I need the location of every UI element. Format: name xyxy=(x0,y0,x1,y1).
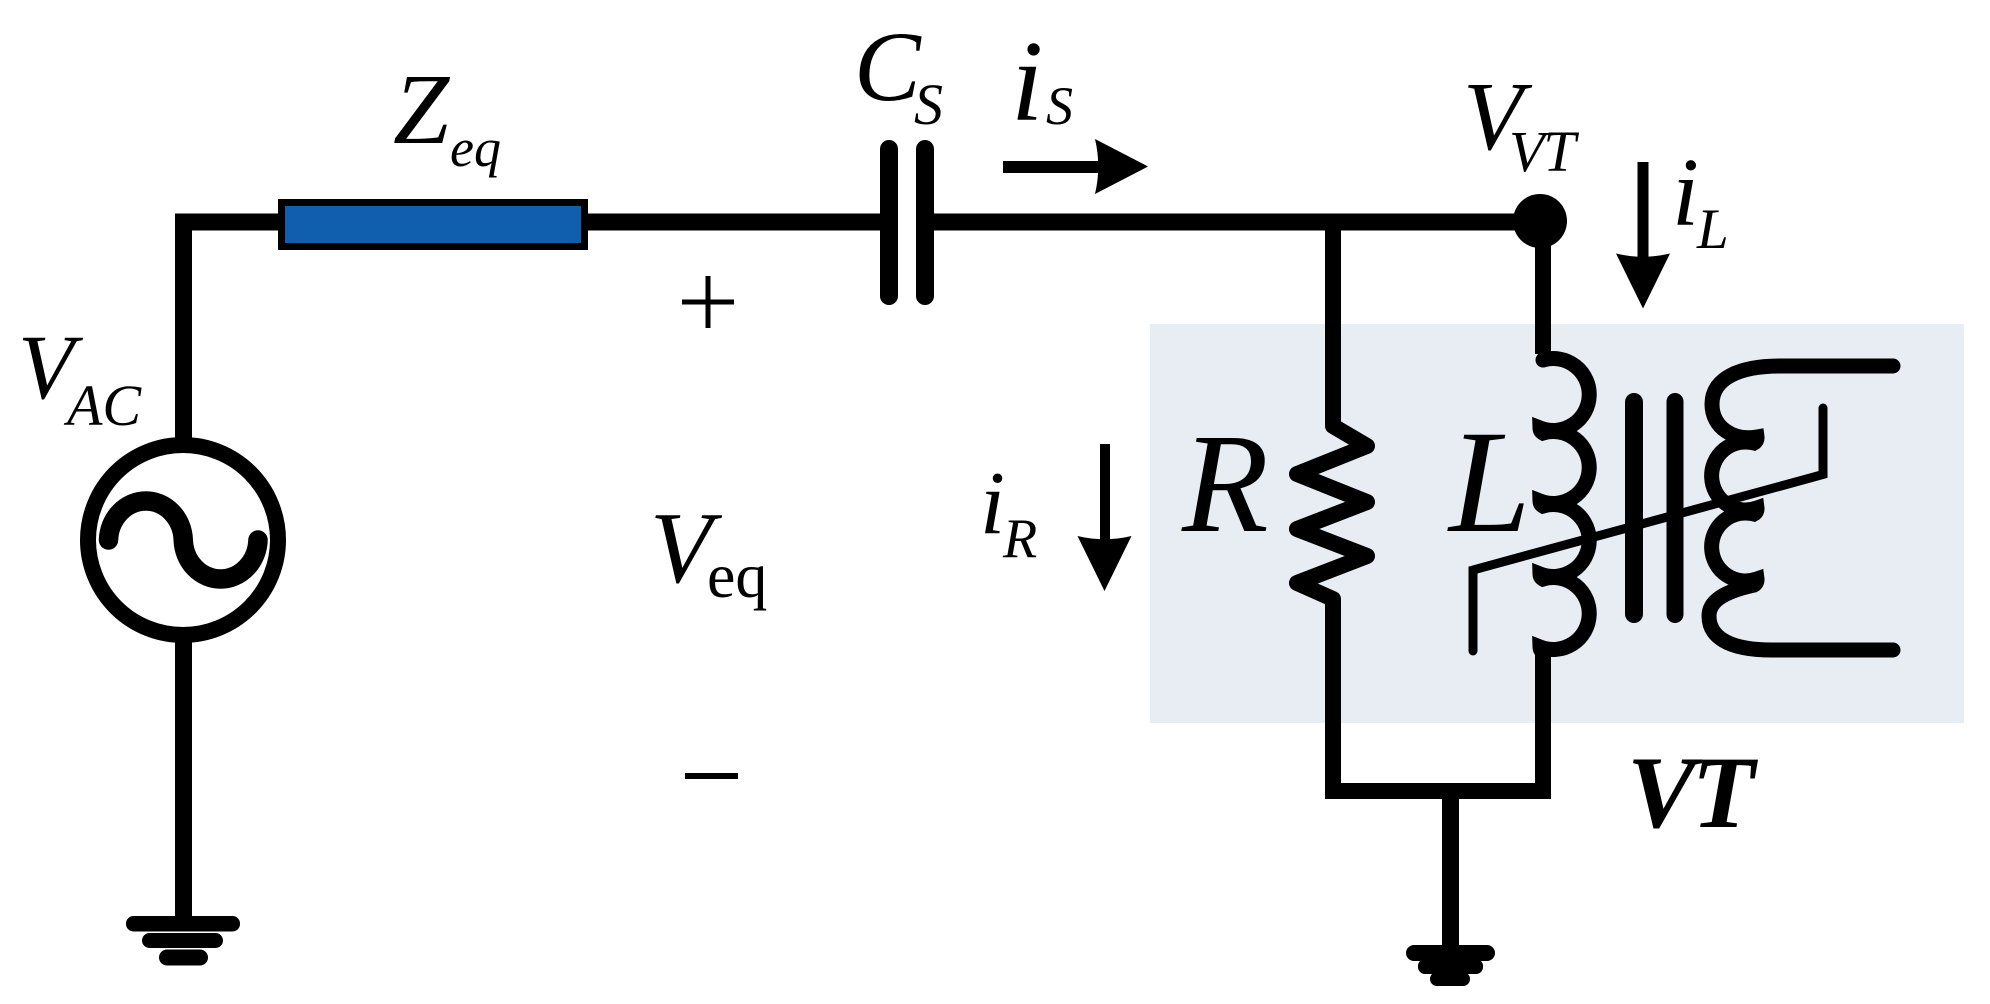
plus sign xyxy=(682,276,734,328)
svg-text:R: R xyxy=(1181,404,1269,562)
resistor R branch: wire + zigzag + wire xyxy=(1297,222,1367,791)
svg-text:S: S xyxy=(914,72,943,137)
inductor L branch: wire from node xyxy=(1535,240,1551,354)
wire: source top corner to blue box xyxy=(184,222,282,444)
svg-text:eq: eq xyxy=(707,540,767,611)
svg-text:AC: AC xyxy=(63,373,142,438)
node VVT dot xyxy=(1513,194,1567,248)
svg-text:i: i xyxy=(1672,139,1699,246)
wire: coil bottom to rail xyxy=(1535,650,1551,791)
transformer core bar 1 xyxy=(1625,393,1643,623)
svg-text:eq: eq xyxy=(450,118,501,178)
ground (left) xyxy=(126,916,240,966)
iR current arrow xyxy=(1100,444,1110,543)
wire: capacitor to node xyxy=(934,214,1540,231)
svg-text:i: i xyxy=(980,454,1005,553)
svg-text:C: C xyxy=(854,11,922,122)
wire: rail to ground (right) xyxy=(1442,791,1459,947)
ground (right) xyxy=(1406,945,1495,986)
iS current arrow xyxy=(1003,161,1102,173)
svg-text:VT: VT xyxy=(1509,119,1579,184)
svg-text:VT: VT xyxy=(1627,736,1759,850)
AC source VAC circle xyxy=(88,445,278,635)
iL current arrow xyxy=(1638,162,1649,257)
svg-text:S: S xyxy=(1046,76,1073,136)
inductor L coil xyxy=(1540,359,1589,652)
transformer secondary coil with leads xyxy=(1709,366,1893,650)
svg-text:L: L xyxy=(1447,400,1531,563)
wire: source bottom to ground xyxy=(175,640,192,922)
wire: blue box to capacitor xyxy=(585,214,881,231)
sine wave inside source xyxy=(109,501,259,579)
transformer core bar 2 xyxy=(1667,393,1684,623)
svg-text:L: L xyxy=(1696,198,1729,261)
VT shaded region xyxy=(1150,324,1964,723)
svg-text:i: i xyxy=(1011,18,1043,146)
svg-text:Z: Z xyxy=(393,53,451,165)
minus sign xyxy=(685,773,738,779)
variable arrow through transformer xyxy=(1473,408,1823,651)
capacitor CS plate left xyxy=(880,140,898,305)
svg-text:R: R xyxy=(1002,508,1037,570)
resistor Zeq (blue box) xyxy=(282,203,585,247)
bottom rail xyxy=(1325,783,1551,799)
capacitor CS plate right xyxy=(916,140,934,305)
